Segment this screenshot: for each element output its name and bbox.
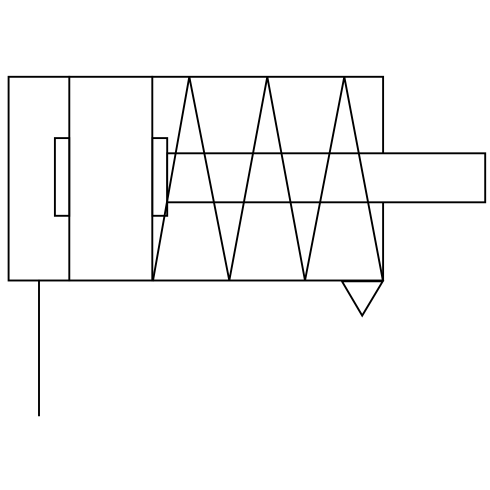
piston plate 2 — [151, 77, 153, 281]
exhaust vent triangle — [342, 281, 383, 315]
piston rod (white fill hides barrel edge behind it) — [167, 153, 485, 202]
piston plate 1 — [68, 77, 70, 281]
piston seal 1 — [55, 138, 69, 216]
return spring — [153, 77, 383, 281]
piston seal 2 — [152, 138, 167, 216]
cylinder body (barrel) — [9, 77, 384, 281]
port connection line — [38, 281, 40, 416]
